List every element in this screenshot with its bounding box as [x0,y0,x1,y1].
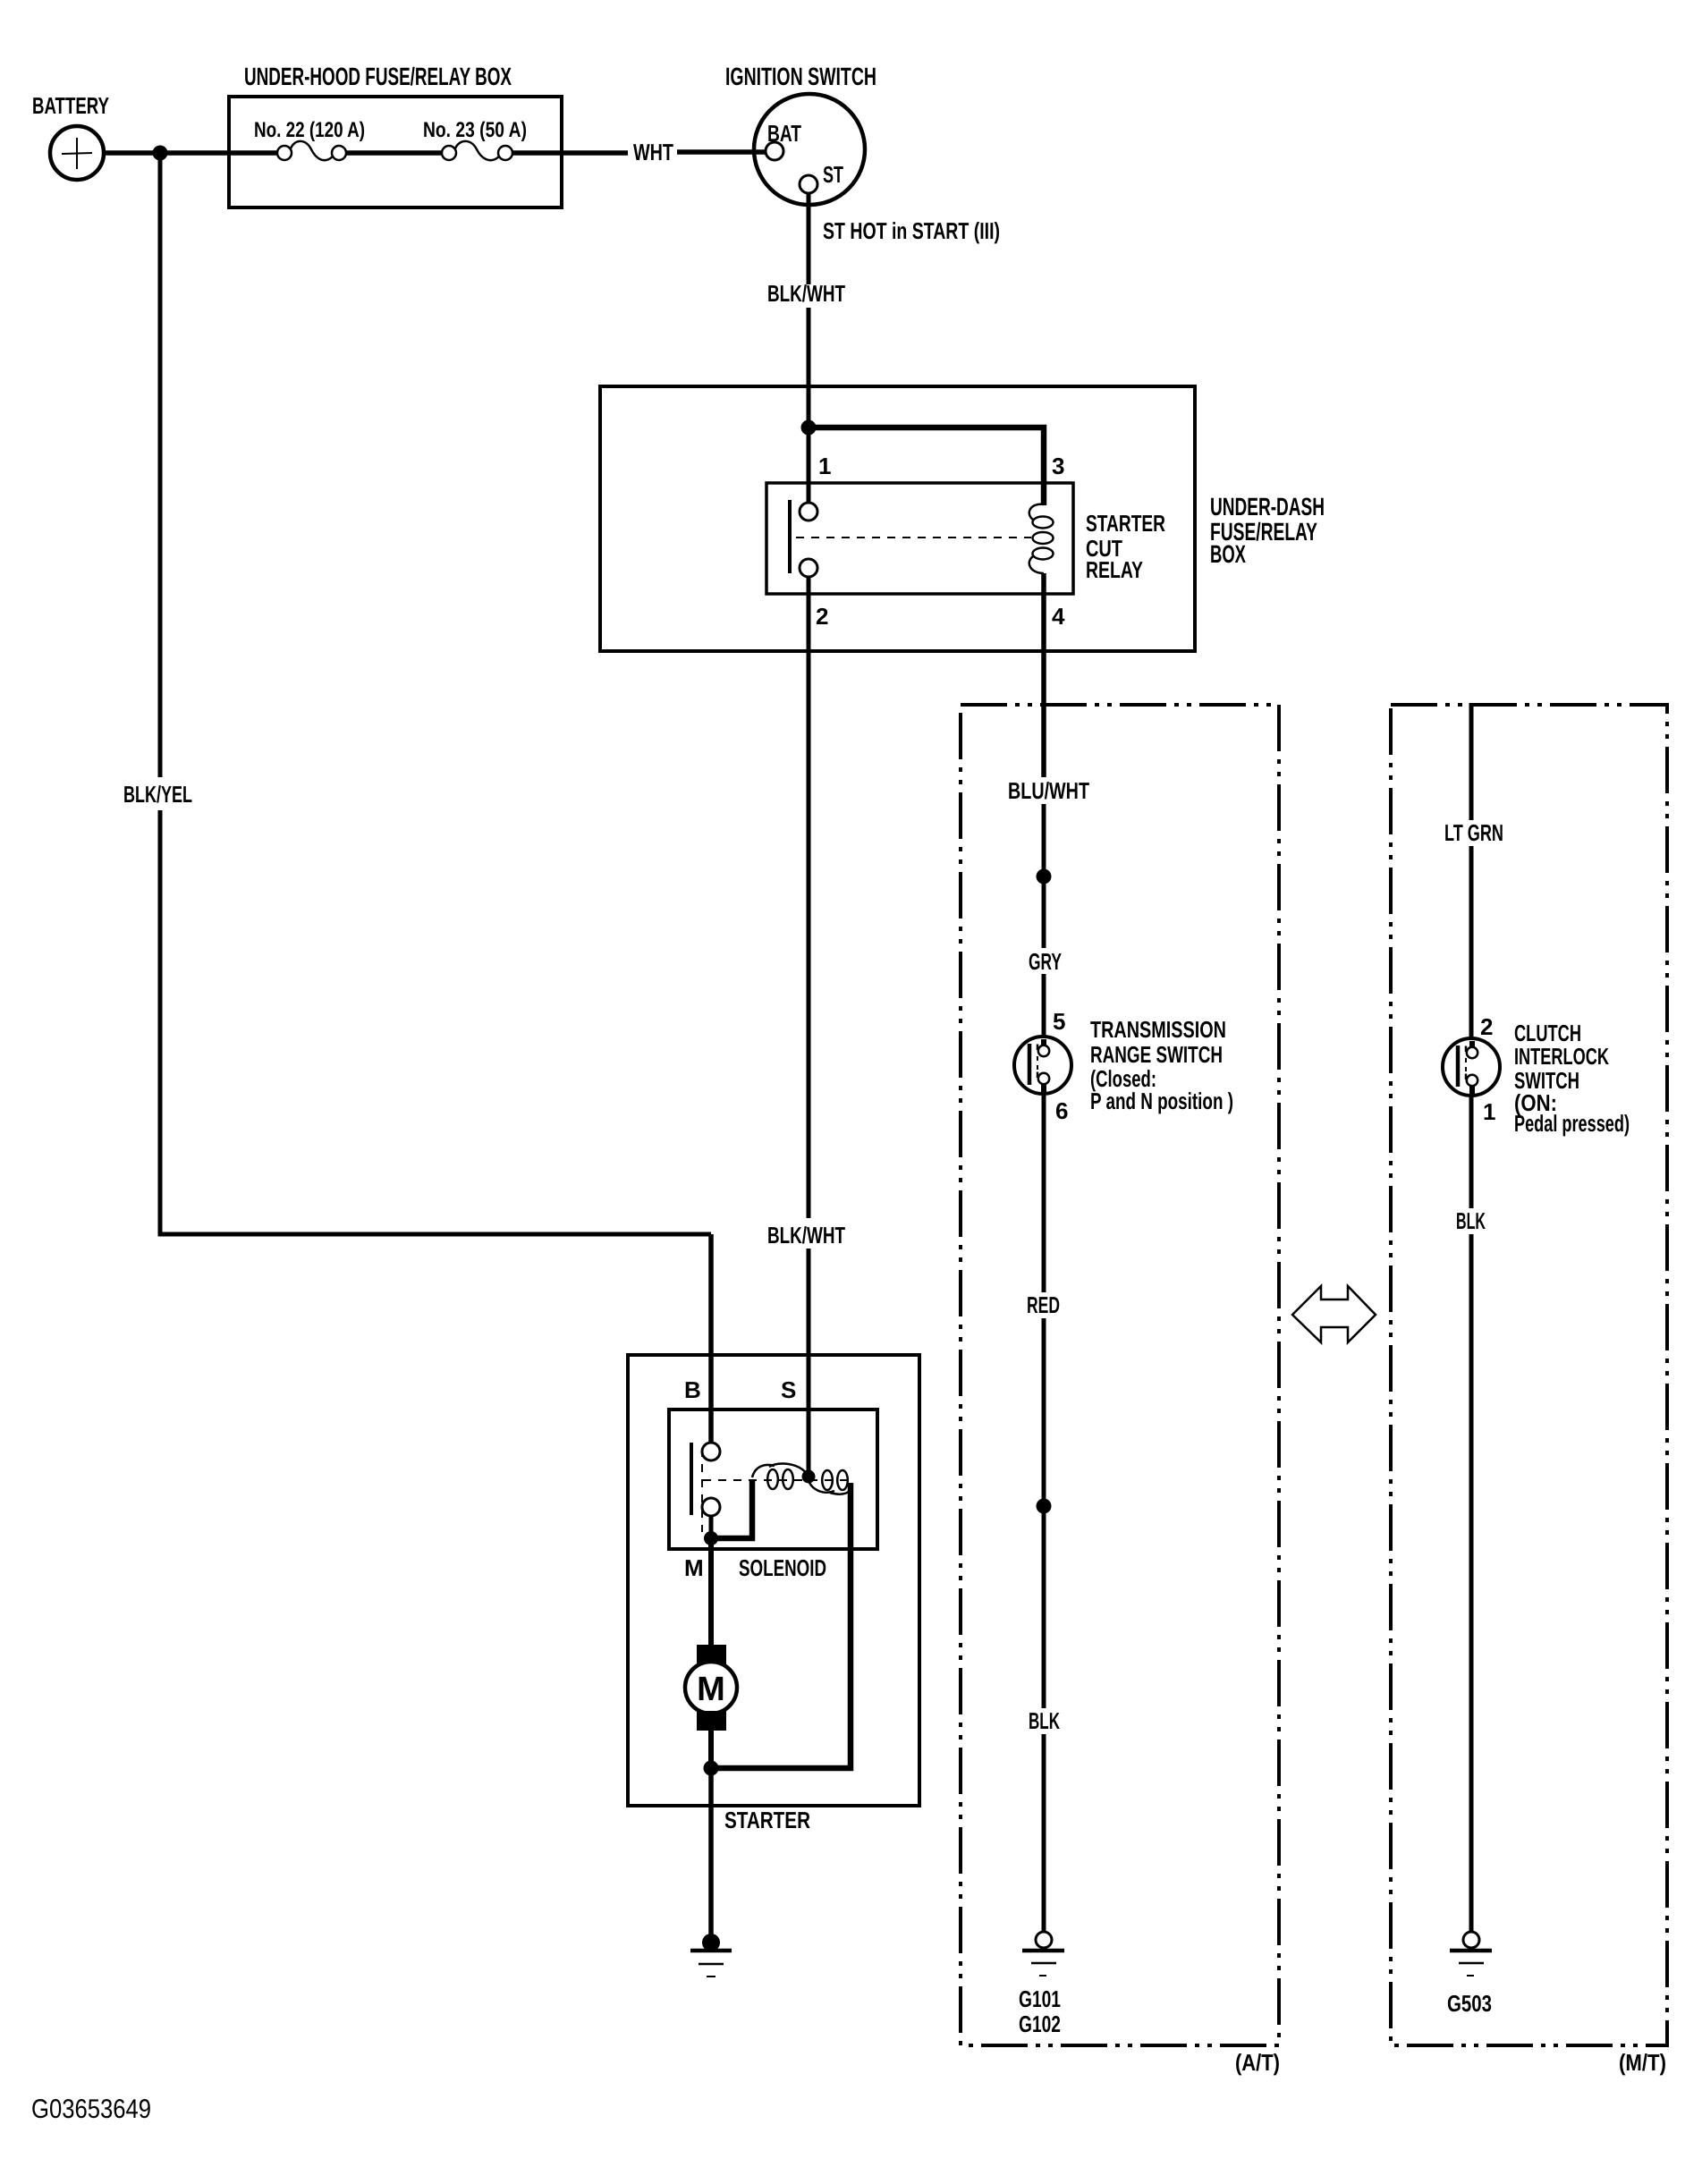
svg-text:UNDER-DASH: UNDER-DASH [1210,493,1325,521]
svg-text:G101: G101 [1019,1985,1061,2012]
wire WHT to ignition BAT [677,149,766,155]
wire BLK to ground M/T [1469,1234,1474,1932]
relay coil [1029,504,1054,573]
svg-text:M: M [697,1671,725,1708]
svg-text:WHT: WHT [633,139,673,165]
A/T dash-dot box [961,705,1279,2045]
fuse No.22 (120 A) [277,141,346,160]
svg-text:(M/T): (M/T) [1619,2049,1666,2076]
solenoid contact bar [690,1443,693,1515]
wire M node to coil riser [711,1481,752,1538]
relay linkage dashed line [796,537,1031,538]
wire coil return riser [711,1483,851,1768]
relay contact circles [800,503,817,521]
svg-text:M: M [684,1554,704,1581]
solenoid contact circles [702,1443,720,1460]
wire between fuses [346,150,443,156]
starter motor [685,1645,737,1731]
svg-text:6: 6 [1055,1097,1068,1124]
svg-text:G102: G102 [1019,2010,1061,2037]
node battery/starter junction [153,146,168,161]
solenoid box [669,1409,877,1549]
node relay pin1 junction [801,420,817,436]
svg-text:5: 5 [1053,1008,1065,1035]
wire contact to M node [709,1516,714,1542]
wire motor to bottom node [708,1729,714,1772]
svg-text:BOX: BOX [1210,540,1246,568]
wire ST down lower to relay [807,308,811,504]
svg-text:Pedal pressed): Pedal pressed) [1514,1110,1630,1137]
svg-text:STARTER: STARTER [724,1807,810,1833]
svg-text:BLK/YEL: BLK/YEL [123,781,192,808]
svg-text:RANGE SWITCH: RANGE SWITCH [1090,1041,1223,1068]
svg-text:RED: RED [1027,1291,1060,1318]
ground starter [690,1934,732,1977]
svg-text:No. 23 (50 A): No. 23 (50 A) [423,118,527,142]
svg-text:BATTERY: BATTERY [32,92,109,119]
node S coil junction [802,1470,816,1484]
svg-text:BLK: BLK [1456,1207,1486,1234]
wire BLK to ground [1042,1734,1046,1932]
svg-text:(A/T): (A/T) [1235,2049,1280,2076]
svg-text:TRANSMISSION: TRANSMISSION [1090,1016,1226,1043]
wire M node to motor [708,1538,714,1648]
label STARTER CUT RELAY [1086,510,1165,583]
svg-text:BLK/WHT: BLK/WHT [767,280,845,307]
svg-text:BLK: BLK [1029,1707,1060,1734]
wire BLU/WHT to node [1042,804,1046,948]
svg-text:B: B [684,1376,701,1403]
svg-text:RELAY: RELAY [1086,556,1143,583]
svg-text:LT GRN: LT GRN [1444,819,1503,846]
svg-text:SOLENOID: SOLENOID [739,1554,826,1581]
wire battery to fuse No.22 [103,150,278,156]
svg-text:ST HOT in START (III): ST HOT in START (III) [823,217,1000,244]
svg-text:INTERLOCK: INTERLOCK [1514,1043,1609,1070]
wire pin2 down to label gap [807,577,811,1218]
svg-text:ST: ST [823,161,843,188]
clutch interlock switch [1443,1038,1500,1096]
wire pin4 into A/T box [1042,775,1046,780]
node A/T splice 2 [1037,1499,1052,1514]
wire LT GRN to switch [1469,846,1474,1042]
under-dash fuse/relay box [600,386,1195,651]
wire BLK/YEL horizontal to starter [158,1232,712,1237]
wire M/T top [1469,703,1474,820]
svg-text:2: 2 [816,603,828,630]
svg-text:2: 2 [1480,1013,1493,1040]
ground G101/G102 [1022,1932,1064,1976]
ground G503 [1450,1932,1492,1976]
svg-text:BLK/WHT: BLK/WHT [767,1222,845,1249]
svg-text:No. 22 (120 A): No. 22 (120 A) [254,118,365,142]
node A/T splice [1037,869,1052,885]
node M junction [704,1531,718,1545]
ignition switch [754,94,865,205]
svg-text:IGNITION SWITCH: IGNITION SWITCH [725,63,876,90]
svg-text:BLU/WHT: BLU/WHT [1008,777,1089,804]
starter box [628,1355,919,1806]
svg-text:STARTER: STARTER [1086,510,1165,537]
svg-text:UNDER-HOOD FUSE/RELAY BOX: UNDER-HOOD FUSE/RELAY BOX [244,63,512,90]
solenoid coil [752,1464,851,1494]
label UNDER-DASH FUSE/RELAY BOX [1210,493,1325,568]
wire BLK/YEL vertical upper [158,153,163,777]
wire to starter ground [708,1768,714,1935]
svg-text:1: 1 [1483,1098,1495,1125]
wire GRY to switch [1042,974,1046,1040]
M/T dash-dot box [1391,705,1667,2045]
svg-text:GRY: GRY [1029,948,1062,975]
svg-text:BAT: BAT [767,120,801,147]
solenoid linkage dashed vertical [701,1449,703,1532]
starter cut relay box [766,483,1073,594]
transmission range switch [1014,1037,1071,1094]
wire B terminal vertical [708,1234,714,1443]
fuse No.23 (50 A) [442,141,512,160]
wire clutch switch down [1469,1095,1474,1208]
svg-text:P and N position ): P and N position ) [1090,1088,1233,1114]
svg-text:S: S [781,1376,796,1403]
wire switch to RED label [1042,1093,1046,1292]
wire pin4 down [1041,573,1046,777]
solenoid linkage dashed horizontal [703,1479,850,1481]
svg-text:G503: G503 [1447,1990,1492,2017]
wire junction to pin 3 [809,427,1044,505]
label TRANSMISSION RANGE SWITCH [1090,1016,1233,1114]
under-hood fuse/relay box [229,97,562,207]
svg-text:1: 1 [818,453,831,479]
wire RED to node [1042,1318,1046,1708]
battery [50,126,104,180]
wire ST down upper [807,193,811,284]
arrow A/T-M/T [1292,1286,1376,1342]
wire fuse box to WHT label [512,150,628,156]
wire BLK/YEL vertical lower [158,810,163,1234]
svg-text:G03653649: G03653649 [31,2095,151,2124]
svg-text:4: 4 [1052,603,1065,630]
svg-text:3: 3 [1052,453,1064,479]
node starter bottom junction [704,1761,719,1776]
wire to solenoid S coil [807,1249,811,1473]
label CLUTCH INTERLOCK SWITCH [1514,1020,1630,1137]
relay contact bar [788,500,792,573]
